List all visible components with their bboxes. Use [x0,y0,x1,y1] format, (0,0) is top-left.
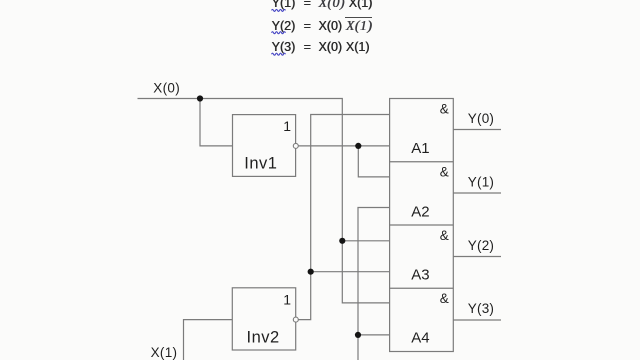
svg-text:Y(0): Y(0) [468,111,494,126]
svg-text:A3: A3 [411,266,429,283]
svg-text:Y(2): Y(2) [468,238,494,253]
svg-text:&: & [440,165,449,180]
svg-text:1: 1 [283,118,291,134]
svg-text:A1: A1 [411,140,429,157]
svg-text:Y(3): Y(3) [468,301,494,316]
svg-text:Inv2: Inv2 [247,328,280,346]
svg-text:X(0): X(0) [153,80,180,95]
svg-text:X(1): X(1) [151,345,178,360]
svg-text:1: 1 [283,292,291,308]
svg-text:&: & [440,291,449,306]
svg-text:&: & [440,228,449,243]
svg-text:Y(1): Y(1) [468,174,494,189]
svg-text:&: & [440,101,449,116]
svg-text:A2: A2 [411,203,429,220]
svg-text:Inv1: Inv1 [244,155,277,173]
svg-text:A4: A4 [411,330,429,347]
